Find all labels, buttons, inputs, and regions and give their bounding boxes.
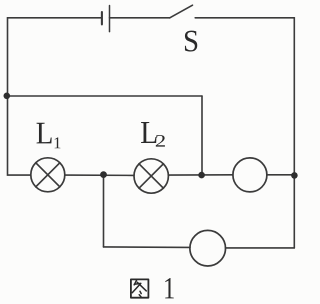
label L2 subscript 2 xyxy=(156,135,165,147)
wire: bottom branch horizontal to bottom meter xyxy=(104,246,191,249)
wire: top rail left segment, left rail down, stub to lamp L1 xyxy=(8,18,102,175)
node B: junction dot between L2 and meter xyxy=(198,172,205,179)
meter (plain circle, bottom) xyxy=(190,230,226,266)
wire: bottom meter to bottom-right corner xyxy=(226,247,295,249)
node A: junction dot between L1 and L2 xyxy=(100,171,107,178)
wire: L1 to node A to L2 xyxy=(65,174,134,176)
battery (short negative plate) xyxy=(101,12,103,24)
lamp L1 (circle with cross) xyxy=(31,158,65,192)
wire: battery to switch xyxy=(110,17,170,19)
label L2 xyxy=(141,122,156,143)
wire: switch right contact to top-right corner xyxy=(195,17,294,19)
meter (plain circle, middle right) xyxy=(233,158,267,192)
switch S lever (open blade) xyxy=(170,5,193,18)
wire: L2 to node B to meter circle xyxy=(168,174,233,176)
label L1 subscript 1 xyxy=(55,137,61,148)
wire: meter to right rail node C xyxy=(267,174,294,176)
label S (switch) xyxy=(185,31,197,52)
node C: junction dot on right rail xyxy=(291,172,298,179)
wire: right rail down the right side xyxy=(293,18,295,248)
label L1 xyxy=(37,123,52,144)
wire: branch from node A down xyxy=(103,175,105,247)
lamp L2 (circle with cross) xyxy=(134,159,168,193)
wire: middle bypass rail horizontal xyxy=(8,95,203,97)
wire: middle bypass rail vertical drop to node B xyxy=(201,96,203,175)
caption glyph 图 (drawn strokes) xyxy=(131,279,149,297)
caption digit 1 of 图 1 xyxy=(165,278,174,298)
battery (long positive plate) xyxy=(109,6,111,32)
node: junction dot on left rail xyxy=(4,93,11,100)
